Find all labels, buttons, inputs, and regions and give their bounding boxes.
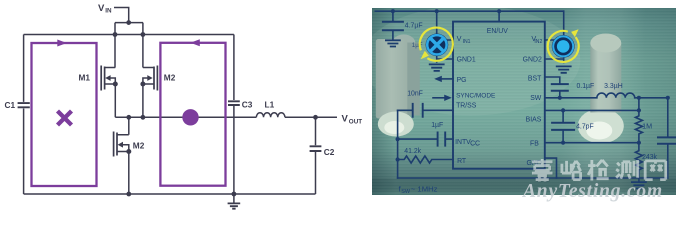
overlay schematic in photo [375,11,677,188]
svg-text:M2: M2 [133,141,145,151]
purple X marker [58,111,72,125]
svg-text:BST: BST [528,75,542,82]
node junction dots [105,20,318,196]
arrow PG out [441,77,453,79]
node top rail [24,34,234,36]
svg-text:IN: IN [105,8,112,15]
svg-text:FB: FB [530,140,539,147]
inductor L1 [256,113,284,118]
ground [429,64,443,70]
svg-text:1M: 1M [642,121,652,130]
svg-text:0.1µF: 0.1µF [576,82,594,89]
ground [386,40,400,46]
svg-text:~ 1MHz: ~ 1MHz [410,184,437,193]
wire left rail [396,110,398,178]
svg-text:3.3µH: 3.3µH [604,82,623,89]
resistor 41.2k RT [397,155,452,162]
node SW line + inductor 3.3uH [544,93,667,178]
node switch output line [115,116,337,118]
svg-text:IN1: IN1 [462,38,470,44]
ground [632,182,646,188]
wire M1 drain drop [105,23,116,68]
ground [233,194,235,203]
svg-text:V: V [98,3,105,14]
capacitor C3 [233,35,235,195]
svg-text:V: V [456,33,461,42]
photographed inductor right [577,33,623,143]
wire top rail [375,10,563,12]
current-into-page marker (X in circle) at VIN1 [419,27,452,60]
capacitor 10nF TR/SS [397,109,452,111]
RIGHT: PCB demo-board photo with overlaid schematic [372,8,677,196]
pin and value labels [398,22,657,194]
svg-text:C3: C3 [242,100,253,110]
wire bottom rail [24,193,316,195]
svg-text:CC: CC [470,140,480,147]
capacitor C2 [315,117,317,194]
capacitor 1uF INTVcc [397,138,452,140]
capacitor 4.7pF [562,110,564,142]
wire M2 drain drop [143,23,154,68]
svg-text:SW: SW [530,94,542,101]
capacitor C1 [23,35,25,195]
svg-text:L1: L1 [265,100,275,110]
transistor M2 top [154,66,157,91]
capacitor 4.7uF input [392,11,394,39]
wire VIN feed [114,8,143,23]
wire GND pin [544,158,556,178]
svg-text:RT: RT [457,157,467,164]
svg-text:INTV: INTV [455,138,471,145]
purple input current loop [32,43,226,186]
photographed bulk capacitor left [375,34,419,136]
wire bottom rail [397,176,667,178]
svg-text:1µF: 1µF [431,121,443,128]
node VIN2 drop [544,11,563,62]
wire BIAS [544,109,638,111]
svg-text:4.7µF: 4.7µF [404,22,422,29]
transistor M2 bottom [114,132,117,157]
capacitor output [658,137,678,143]
svg-text:GND2: GND2 [522,56,541,63]
capacitor 0.1uF BST [544,76,559,97]
svg-text:OUT: OUT [349,118,362,125]
svg-text:M2: M2 [164,73,176,83]
svg-text:PG: PG [456,76,466,83]
svg-text:4.7pF: 4.7pF [576,123,594,130]
LEFT: buck converter schematic [0,0,368,212]
svg-text:EN/UV: EN/UV [486,27,507,34]
ground [556,66,570,72]
svg-text:C2: C2 [324,147,335,157]
transistor M1 [101,66,104,91]
wire EN/UV [498,11,500,21]
svg-text:41.2k: 41.2k [404,147,421,154]
svg-text:10nF: 10nF [407,90,423,97]
label VIN [5,3,363,157]
node VIN1 drop [436,11,452,62]
svg-text:M1: M1 [79,73,91,83]
purple dot marker [182,109,198,125]
current-out-of-page marker (dot in circle) at VIN2 [547,29,578,62]
wire FB [544,141,638,143]
svg-text:BIAS: BIAS [525,116,541,123]
arrow left loop [57,40,67,47]
svg-text:V: V [342,113,349,124]
svg-text:TR/SS: TR/SS [456,102,477,109]
svg-text:GND1: GND1 [456,56,475,63]
resistor 243k [635,142,642,177]
IC box LT8614 [453,21,545,168]
arrow SYNC/MODE in [433,96,445,98]
svg-text:SYNC/MODE: SYNC/MODE [456,92,496,99]
svg-text:IN2: IN2 [534,38,542,44]
arrow right loop [190,39,200,46]
resistor 1M [635,97,642,142]
watermark jiayu testing net [531,156,677,186]
svg-text:C1: C1 [5,100,16,110]
svg-text:SW: SW [401,188,411,194]
